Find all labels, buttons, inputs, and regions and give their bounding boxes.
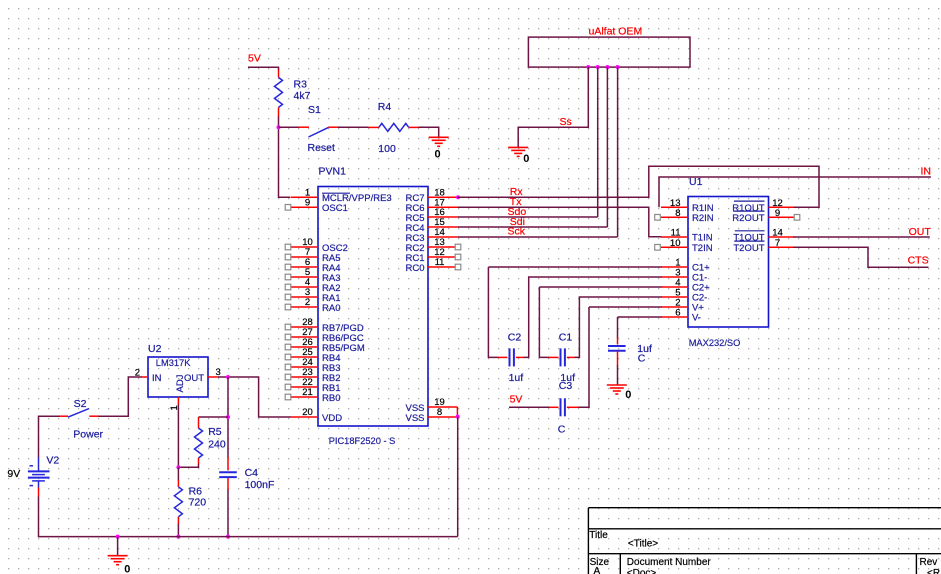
U1 pin 5 (C2-) <box>661 288 707 304</box>
svg-text:A: A <box>594 566 601 574</box>
ground 0 (rail) <box>108 556 131 574</box>
wire CTS from U1 T2OUT <box>793 247 929 267</box>
svg-text:100: 100 <box>378 143 396 155</box>
svg-text:V-: V- <box>692 313 701 324</box>
U1 pin 10 (T2IN) <box>655 238 713 254</box>
U1 pin 12 (R1OUT) <box>732 198 793 214</box>
wire OUT down to R5/C4 <box>227 377 229 458</box>
U2 pin 3 (OUT) <box>208 376 219 378</box>
U3 pin 13 (RC2) <box>405 237 460 254</box>
U3 pin 25 (RB4) <box>285 347 340 364</box>
wire Sdi RC4 to uAlfat <box>457 226 607 228</box>
svg-text:U2: U2 <box>148 343 162 355</box>
wire Sck RC3 to uAlfat <box>457 236 617 238</box>
U1 pin 7 (T2OUT) <box>733 238 793 254</box>
svg-text:9: 9 <box>775 208 780 219</box>
U3 pin 2 (RA0) <box>285 297 340 314</box>
wire Tx RC6 to U1 T1IN <box>457 207 661 237</box>
svg-text:0: 0 <box>124 563 130 574</box>
R5 bottom stub <box>198 458 200 465</box>
svg-text:9: 9 <box>305 198 310 209</box>
svg-text:10: 10 <box>670 238 681 249</box>
svg-text:OUT: OUT <box>184 373 204 384</box>
svg-text:11: 11 <box>435 257 445 268</box>
svg-text:0: 0 <box>625 389 631 401</box>
C3 left stub <box>549 406 559 408</box>
uAlfat pin dot 2 <box>596 65 600 69</box>
svg-text:OUT: OUT <box>909 226 932 238</box>
wire U1 C2+ horizontal <box>539 286 661 288</box>
wire IN to U1 R1IN <box>659 177 931 207</box>
svg-text:T2IN: T2IN <box>692 243 713 254</box>
svg-text:S1: S1 <box>308 104 321 116</box>
svg-text:S2: S2 <box>74 398 87 410</box>
U3 pin 14 (RC3) <box>405 227 457 244</box>
svg-text:RA0: RA0 <box>322 303 340 314</box>
U2 pin 2 (IN) <box>141 376 148 378</box>
VSS pin 19 bend <box>456 407 458 417</box>
svg-text:9V: 9V <box>7 468 20 480</box>
resistor R5 <box>195 428 203 458</box>
wire U1 V+ horizontal <box>589 306 662 308</box>
svg-text:VDD: VDD <box>322 413 342 424</box>
battery bottom stub <box>38 487 40 497</box>
wire R3 to U3 pin 1 (MCLR) <box>279 117 291 198</box>
svg-text:20: 20 <box>302 407 313 418</box>
module uAlfat OEM box <box>528 37 690 67</box>
capacitor C3 <box>560 398 562 416</box>
junction U2 OUT <box>226 375 230 379</box>
wire ground rail <box>39 497 458 537</box>
svg-text:Document Number: Document Number <box>627 557 712 568</box>
U3 pin 7 (RA5) <box>285 247 340 264</box>
svg-text:4k7: 4k7 <box>294 90 311 102</box>
U3 pin 6 (RA4) <box>285 257 340 274</box>
U1 pin 8 (R2IN) <box>655 208 714 224</box>
U3 pin 23 (RB2) <box>285 367 340 384</box>
svg-text:5V: 5V <box>248 53 261 65</box>
capacitor C1 <box>560 348 562 366</box>
svg-text:R5: R5 <box>208 426 222 438</box>
wire C2+ down to C1 <box>539 287 549 357</box>
svg-text:2: 2 <box>305 297 310 308</box>
wire C2 to U1 C1- <box>524 277 662 357</box>
U3 pin 24 (RB3) <box>285 357 340 374</box>
wire C4 to rail <box>227 490 229 537</box>
svg-text:Rev: Rev <box>920 557 938 568</box>
svg-text:7: 7 <box>775 238 780 249</box>
svg-text:PIC18F2520 - S: PIC18F2520 - S <box>329 436 396 446</box>
svg-text:MAX232/SO: MAX232/SO <box>689 338 741 348</box>
wire Sdo vertical <box>597 67 599 217</box>
wire U2 OUT to VDD <box>218 377 291 417</box>
svg-text:C2: C2 <box>508 331 522 343</box>
U3 pin 27 (RB6/PGC) <box>285 327 364 344</box>
junction ADJ/R5/R6 <box>176 465 180 469</box>
microcontroller U3 box (PIC18F2520) <box>318 187 428 427</box>
junction R6/rail <box>176 535 180 539</box>
MCLR overline <box>322 192 350 194</box>
svg-text:5V: 5V <box>510 393 523 405</box>
svg-text:C: C <box>638 353 646 365</box>
U1 pin 3 (C1-) <box>661 268 707 284</box>
wire VSS to ground rail <box>457 417 459 537</box>
U3 pin 1 (MCLR/VPP/RE3) <box>291 188 392 205</box>
U1 pin 13 (R1IN) <box>661 198 714 214</box>
wire rail to ground symbol <box>117 537 119 556</box>
svg-text:720: 720 <box>189 496 207 508</box>
title block text <box>589 530 940 574</box>
wire R4 to ground <box>419 127 439 137</box>
capacitor C4 <box>219 471 237 473</box>
wire 5V to C3 <box>509 406 549 408</box>
wire S2 to U2 IN <box>98 377 141 416</box>
svg-text:C: C <box>558 424 566 436</box>
svg-text:<Doc>: <Doc> <box>627 568 657 574</box>
junction rail/ground <box>116 535 120 539</box>
wire OUT from U1 T1OUT <box>793 236 930 238</box>
junction R5/C4 top <box>226 415 230 419</box>
U3 pin 18 (RC7) <box>405 188 457 205</box>
R3 bottom stub <box>278 107 280 117</box>
junction R3/S1 <box>277 125 281 129</box>
U3 pin 26 (RB5/PGM) <box>285 337 365 354</box>
junction C4/rail <box>226 535 230 539</box>
C2 right stub <box>516 356 524 358</box>
R6 top stub <box>177 480 179 487</box>
switch S2 <box>68 409 89 418</box>
svg-text:1uf: 1uf <box>509 372 524 384</box>
wire Sck vertical <box>617 67 619 237</box>
svg-text:ADJ: ADJ <box>175 374 186 392</box>
svg-text:T2OUT: T2OUT <box>733 243 764 254</box>
wire to R6 <box>177 467 179 480</box>
svg-text:8: 8 <box>675 208 680 219</box>
svg-text:0: 0 <box>523 153 529 165</box>
wire to R5 top <box>199 416 229 418</box>
svg-text:<Title>: <Title> <box>628 539 658 550</box>
svg-text:3: 3 <box>216 367 221 378</box>
U3 pin 4 (RA2) <box>285 277 340 294</box>
U3 pin 9 (OSC1) <box>285 198 348 215</box>
svg-text:Power: Power <box>73 428 103 440</box>
wire C1 to U1 C2- <box>575 297 662 357</box>
svg-text:IN: IN <box>921 166 932 178</box>
U3 pin 21 (RB0) <box>285 387 340 404</box>
svg-text:IN: IN <box>152 373 162 384</box>
U1 pin 2 (V+) <box>661 298 704 314</box>
S2 right stub <box>89 415 99 417</box>
svg-text:RC0: RC0 <box>405 263 424 274</box>
svg-text:Ss: Ss <box>560 116 572 128</box>
S1 right stub <box>328 126 338 128</box>
svg-text:VSS: VSS <box>405 413 424 424</box>
svg-text:OSC1: OSC1 <box>322 203 348 214</box>
ground 0 (R4) <box>429 137 449 160</box>
svg-text:R2IN: R2IN <box>692 213 714 224</box>
svg-text:C3: C3 <box>559 380 573 392</box>
svg-text:6: 6 <box>675 308 680 319</box>
svg-text:R4: R4 <box>378 101 392 113</box>
U3 pin 17 (RC6) <box>405 198 457 215</box>
wire R5 bottom to ADJ net <box>178 464 198 467</box>
R4 right stub <box>409 126 419 128</box>
svg-text:uAlfat OEM: uAlfat OEM <box>589 25 643 37</box>
U3 pin 8 (VSS) <box>405 407 457 424</box>
U3 pin 3 (RA1) <box>285 287 340 304</box>
wire V- down to cap C <box>617 317 619 338</box>
U3 pin 15 (RC4) <box>405 217 457 234</box>
resistor R3 <box>275 77 283 107</box>
uAlfat pin dot 1 <box>586 65 590 69</box>
wire U1 C1+ horizontal <box>488 266 661 268</box>
capacitor C2 <box>509 348 511 366</box>
wire Sdo RC5 to uAlfat <box>457 216 597 218</box>
wire cap C to ground <box>617 365 619 385</box>
wire V+ down to C3 <box>578 307 589 407</box>
title block frame <box>588 508 941 574</box>
uAlfat pin dot 3 <box>605 65 609 69</box>
svg-text:U1: U1 <box>689 176 703 188</box>
svg-text:Title: Title <box>589 530 608 541</box>
U3 pin 12 (RC1) <box>405 247 460 264</box>
wire S1 to R4 <box>338 126 369 128</box>
capacitor C (1uf) <box>608 345 626 347</box>
U3 pin 10 (OSC2) <box>285 237 348 254</box>
svg-text:RB0: RB0 <box>322 393 340 404</box>
svg-text:LM317K: LM317K <box>156 358 191 368</box>
U3 pin 5 (RA3) <box>285 267 340 284</box>
wire Ss to ground <box>518 67 588 147</box>
svg-text:240: 240 <box>208 438 226 450</box>
IC U1 box (MAX232) <box>688 197 769 328</box>
U1 pin 14 (T1OUT) <box>733 228 793 244</box>
S2 left stub <box>60 415 69 417</box>
U1 pin 6 (V-) <box>661 308 701 324</box>
svg-text:C4: C4 <box>245 467 259 479</box>
wire R6 to rail <box>177 524 179 537</box>
U1 pin 1 (C1+) <box>661 258 710 274</box>
U1 pin 11 (T1IN) <box>661 228 713 244</box>
wire ADJ down <box>177 405 179 468</box>
wire Rx RC7 to U1 R1OUT <box>457 166 819 207</box>
uAlfat pin dot 4 <box>616 65 620 69</box>
svg-text:R2OUT: R2OUT <box>732 213 764 224</box>
switch S1 <box>309 127 329 137</box>
wire battery to S2 <box>39 416 60 457</box>
battery V2 <box>28 457 50 487</box>
wire 5V to R3 <box>248 67 279 70</box>
U3 pin 28 (RB7/PGD) <box>285 317 364 334</box>
regulator U2 box (LM317K) <box>148 357 208 397</box>
U3 pin 19 (VSS) <box>405 397 457 414</box>
svg-text:0: 0 <box>435 148 441 160</box>
U3 pin 22 (RB1) <box>285 377 340 394</box>
wire C1+ down to C2 <box>488 267 498 357</box>
resistor R6 <box>174 487 182 517</box>
svg-text:PVN1: PVN1 <box>319 166 347 178</box>
C4 bottom stub <box>227 478 229 490</box>
C4 top stub <box>227 457 229 470</box>
R6 bottom stub <box>177 517 179 524</box>
junction Rx at RC7 <box>456 195 460 199</box>
U1 pin 9 (R2OUT) <box>732 208 800 224</box>
wire Sdi vertical <box>606 67 608 227</box>
C1 right stub <box>567 356 575 358</box>
resistor R4 <box>379 123 409 131</box>
cap C bottom stub <box>617 351 619 366</box>
U3 pin 16 (RC5) <box>405 207 457 224</box>
U1 pin 4 (C2+) <box>661 278 710 294</box>
ground 0 (cap C) <box>607 385 632 401</box>
U2 pin 1 (ADJ) <box>177 397 179 405</box>
svg-text:Reset: Reset <box>308 142 336 154</box>
ground 0 (Ss) <box>508 147 529 165</box>
wire U1 V- horizontal <box>618 316 662 318</box>
wire junction to S1 <box>279 126 300 128</box>
svg-text:V2: V2 <box>46 455 59 467</box>
svg-text:CTS: CTS <box>908 255 929 267</box>
svg-text:<R: <R <box>927 568 940 574</box>
U3 pin 20 (VDD) <box>291 407 343 424</box>
svg-text:8: 8 <box>437 407 442 418</box>
svg-text:21: 21 <box>302 387 313 398</box>
junction VSS <box>456 415 460 419</box>
svg-text:100nF: 100nF <box>245 479 275 491</box>
R5 top stub <box>198 417 200 428</box>
U3 pin 11 (RC0) <box>405 257 460 274</box>
svg-text:C1: C1 <box>559 331 573 343</box>
